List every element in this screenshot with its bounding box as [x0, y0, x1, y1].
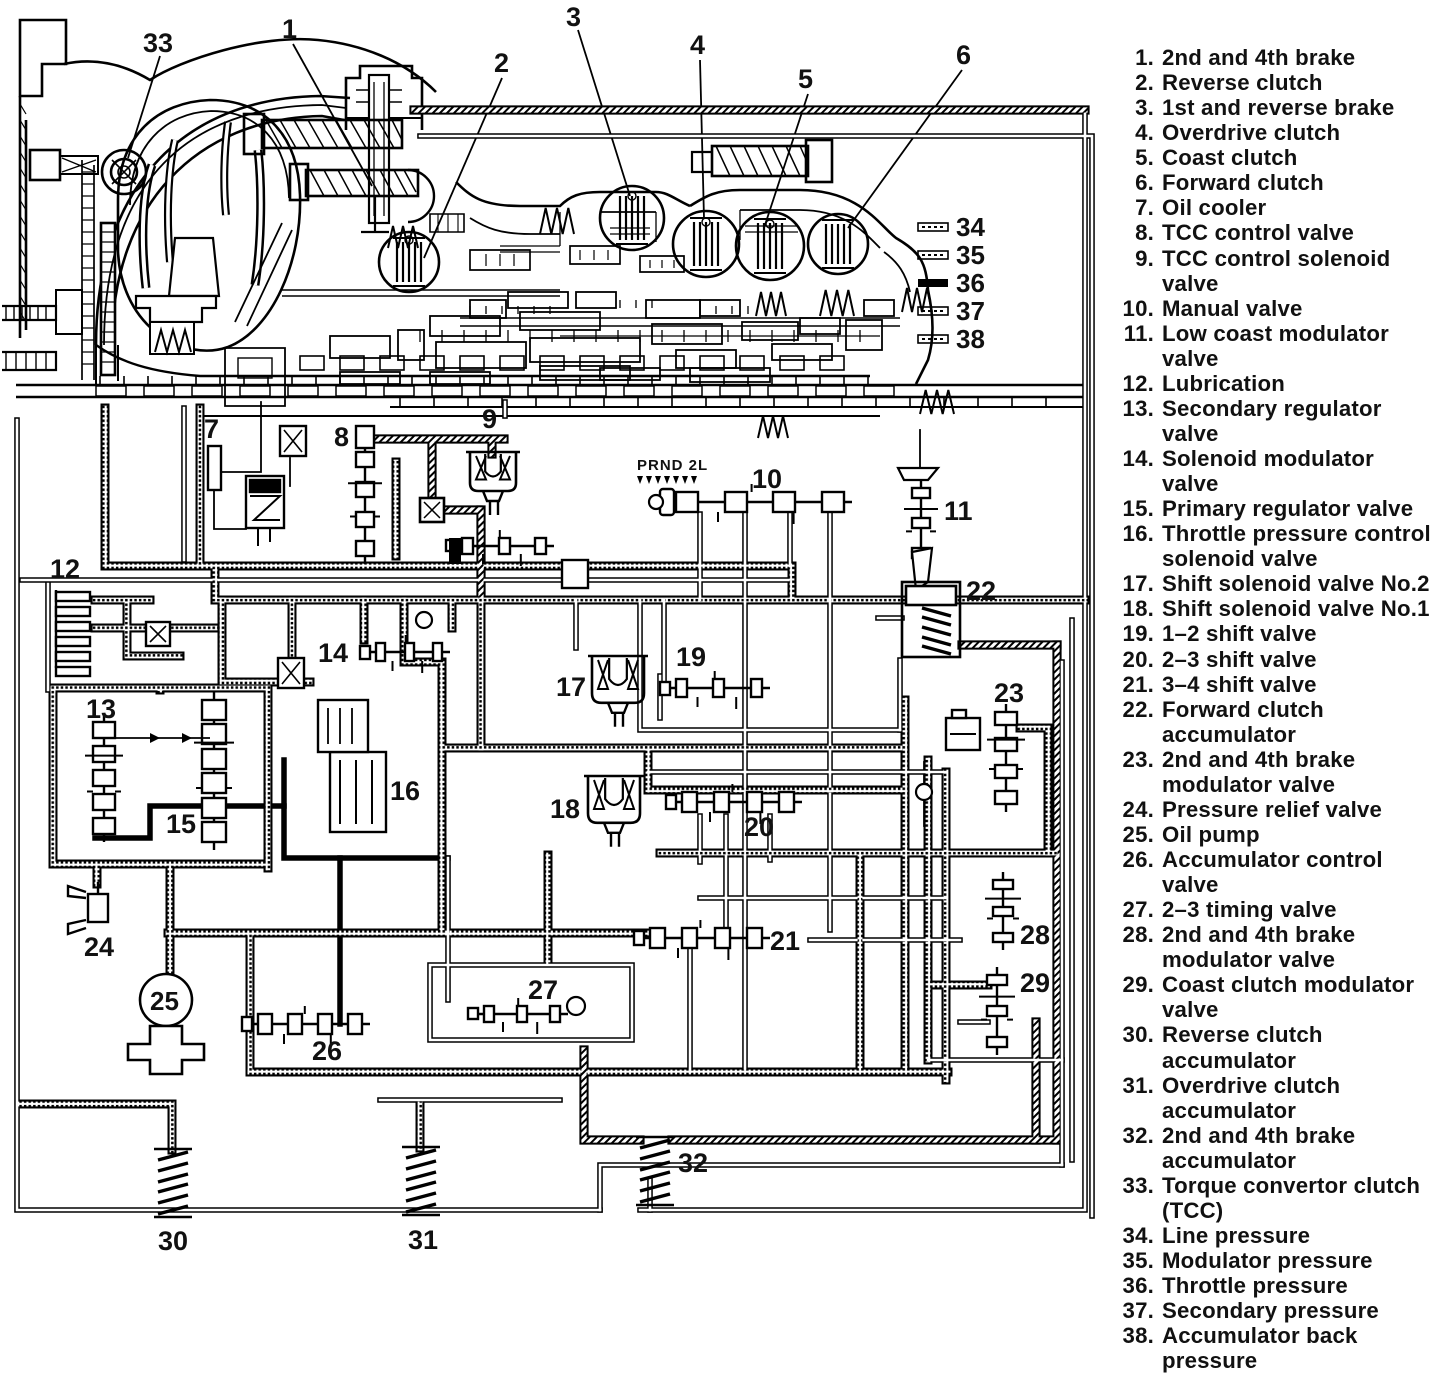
svg-text:9: 9 [482, 404, 497, 434]
svg-text:33: 33 [143, 28, 173, 58]
svg-text:30: 30 [158, 1226, 188, 1256]
svg-text:38: 38 [956, 324, 985, 354]
svg-text:12: 12 [50, 554, 80, 584]
svg-text:36: 36 [956, 268, 985, 298]
svg-text:25: 25 [150, 986, 179, 1016]
svg-text:5: 5 [798, 64, 813, 94]
svg-text:35: 35 [956, 240, 985, 270]
svg-text:7: 7 [204, 414, 219, 444]
svg-text:21: 21 [770, 926, 800, 956]
svg-text:23: 23 [994, 678, 1024, 708]
svg-text:37: 37 [956, 296, 985, 326]
svg-text:18: 18 [550, 794, 580, 824]
svg-text:14: 14 [318, 638, 348, 668]
svg-text:2: 2 [494, 48, 509, 78]
svg-text:31: 31 [408, 1225, 438, 1255]
svg-text:22: 22 [966, 576, 996, 606]
svg-text:17: 17 [556, 672, 586, 702]
svg-text:4: 4 [690, 30, 705, 60]
svg-text:10: 10 [752, 464, 782, 494]
svg-text:15: 15 [166, 809, 196, 839]
svg-text:19: 19 [676, 642, 706, 672]
svg-text:8: 8 [334, 422, 349, 452]
svg-text:26: 26 [312, 1036, 342, 1066]
svg-text:24: 24 [84, 932, 114, 962]
svg-text:20: 20 [744, 812, 774, 842]
svg-text:29: 29 [1020, 968, 1050, 998]
svg-text:1: 1 [282, 14, 297, 44]
svg-text:34: 34 [956, 212, 985, 242]
svg-text:6: 6 [956, 40, 971, 70]
svg-text:32: 32 [678, 1148, 708, 1178]
svg-text:13: 13 [86, 694, 116, 724]
svg-text:28: 28 [1020, 920, 1050, 950]
svg-text:11: 11 [944, 496, 973, 526]
svg-text:16: 16 [390, 776, 420, 806]
svg-text:PRND 2L: PRND 2L [637, 457, 708, 474]
svg-text:27: 27 [528, 975, 558, 1005]
svg-text:3: 3 [566, 2, 581, 32]
